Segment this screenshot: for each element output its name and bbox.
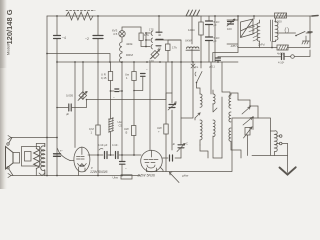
coil bank C3 <box>229 128 241 158</box>
switch S2 <box>197 62 203 94</box>
wire x181 trimmer C14 <box>180 62 182 158</box>
wire x172 trimmer C13 <box>171 62 173 150</box>
IF transformer / tuning gang <box>241 19 254 38</box>
wire left rail <box>46 16 48 176</box>
svg-text:DRM: DRM <box>126 53 133 57</box>
resistor R8 <box>121 175 132 179</box>
capacitor C6 <box>214 16 216 62</box>
wire x75 <box>74 62 76 148</box>
coil bank A1 <box>200 94 202 107</box>
gang arrows <box>249 27 255 36</box>
svg-text:~2: ~2 <box>85 37 89 41</box>
svg-text:FL: FL <box>195 65 199 69</box>
svg-text:420k: 420k <box>126 42 133 46</box>
paper background <box>0 0 320 189</box>
svg-text:120/148 G: 120/148 G <box>5 9 14 44</box>
coil bank C1 <box>229 93 238 108</box>
trimmer box <box>245 128 250 136</box>
svg-text:17S: 17S <box>149 28 154 32</box>
wire x222 <box>222 62 230 97</box>
svg-text:40: 40 <box>158 33 162 37</box>
transformer secondary <box>276 19 279 42</box>
wire right top <box>238 16 310 48</box>
choke hatched lower <box>186 47 200 50</box>
svg-text:4x500: 4x500 <box>274 20 282 24</box>
svg-text:0,005: 0,005 <box>66 94 73 98</box>
switch arrows C <box>242 107 250 114</box>
node top junctions <box>56 15 255 17</box>
wire x222 lower <box>221 97 223 158</box>
bottom bus <box>11 175 140 177</box>
resistor R2 <box>166 44 171 51</box>
svg-text:100: 100 <box>227 27 232 31</box>
capacitor C18 <box>162 157 181 159</box>
speaker <box>6 147 14 170</box>
wire mid rail x57 <box>56 61 58 176</box>
variable cap X box 2 <box>79 92 87 100</box>
svg-text:12kΩ: 12kΩ <box>188 28 195 32</box>
wire node bus y100 <box>87 93 173 100</box>
svg-text:s~: s~ <box>60 150 63 153</box>
trimmer cap C15 <box>54 154 61 157</box>
capacitor C2 trimmer <box>97 16 99 62</box>
trimmer C7 <box>227 16 238 20</box>
wire choke down <box>191 16 193 44</box>
resistor R4 hatched top <box>274 13 287 24</box>
capacitor C4 <box>208 16 210 62</box>
wire x110 <box>110 62 112 72</box>
ground arrow <box>287 144 289 173</box>
transformer primary <box>34 149 40 169</box>
output transformer box <box>22 147 40 167</box>
capacitor C12 <box>141 74 146 77</box>
trimmer bank row2 <box>146 38 181 43</box>
terminal input <box>11 137 57 139</box>
resistor R5 hatched lower <box>277 45 289 56</box>
capacitor C5 <box>206 37 213 41</box>
wire x134 <box>133 62 135 155</box>
wire x150 tube2 anode <box>149 62 151 150</box>
svg-text:4·5: 4·5 <box>113 32 118 36</box>
annotation arrow <box>170 172 180 183</box>
svg-text:µF: µF <box>172 142 175 146</box>
tube V1 <box>74 147 90 172</box>
resistor R1 <box>139 33 143 41</box>
wire y=53.5 <box>47 54 110 63</box>
svg-text:C: C <box>186 142 188 146</box>
wire lamp loop <box>122 27 141 33</box>
variable cap X box <box>151 51 159 59</box>
wire x98 lower <box>97 62 99 125</box>
capacitor C11 <box>121 155 123 176</box>
right coil L8 <box>271 131 278 156</box>
transformer secondary <box>41 144 45 176</box>
svg-text:Modell: Modell <box>7 44 11 55</box>
svg-text:~4: ~4 <box>62 36 66 40</box>
svg-text:17k: 17k <box>172 46 177 50</box>
svg-text:p: p <box>90 166 93 170</box>
antenna arrow end <box>312 15 318 18</box>
resistor R10 <box>132 126 136 136</box>
capacitor C8 + terminal <box>282 54 285 60</box>
resistor R11 <box>164 124 168 134</box>
svg-text:~: ~ <box>125 166 127 170</box>
svg-text:4·10⁵µF: 4·10⁵µF <box>98 143 108 147</box>
coil bank B2 <box>213 120 222 158</box>
capacitor C9 <box>57 100 87 108</box>
wire -185V <box>227 16 238 48</box>
svg-text:0,15: 0,15 <box>101 76 107 80</box>
wire y91 + capacitor C10 <box>111 90 123 92</box>
inductor L1 <box>66 12 93 20</box>
svg-text:12W 5N3/6: 12W 5N3/6 <box>90 170 108 174</box>
switch arrow A <box>195 113 200 118</box>
svg-text:µF: µF <box>66 112 69 116</box>
svg-text:UKW: UKW <box>185 39 192 43</box>
inductor L1 dashed core <box>66 10 95 12</box>
wire x193 <box>181 62 193 118</box>
coil bank C2 <box>229 112 231 122</box>
switch marks FL <box>191 64 195 68</box>
svg-text:2xPd: 2xPd <box>258 43 265 47</box>
svg-text:µ/kw: µ/kw <box>182 174 189 178</box>
resistor R7 <box>108 72 112 81</box>
svg-text:4·10⁵: 4·10⁵ <box>112 143 118 147</box>
coil bank A2 <box>200 120 202 145</box>
chassis ground <box>302 36 310 44</box>
lamp / dial light <box>119 31 125 37</box>
top bus wire <box>47 15 312 17</box>
capacitor C1 <box>56 16 58 61</box>
svg-text:µF: µF <box>174 100 177 104</box>
resistor R3 <box>199 22 203 35</box>
taps <box>276 135 279 137</box>
wire from top node x159 <box>146 16 159 47</box>
resistor R6 <box>96 125 100 135</box>
transformer core <box>271 20 273 41</box>
output transformer primary <box>257 20 260 48</box>
trimmer bank row3 <box>146 44 153 49</box>
svg-text:µ/0,1: µ/0,1 <box>209 65 215 69</box>
switch S1 <box>278 32 312 36</box>
wire x122 <box>121 62 123 155</box>
capacitor C16 <box>105 152 108 159</box>
tube V2 <box>141 150 163 172</box>
coil L2 below lamp <box>120 37 122 63</box>
coil bank B1 <box>213 90 215 104</box>
wire x211 <box>210 62 212 94</box>
capacitor C17 <box>116 152 119 159</box>
wire x160/x166 <box>165 62 167 172</box>
core gap mark <box>285 28 289 34</box>
caps row between tubes <box>88 154 141 156</box>
resistor R9 <box>132 72 136 81</box>
choke hatched top <box>186 10 200 16</box>
svg-text:4·10²: 4·10² <box>278 61 284 65</box>
svg-text:~: ~ <box>113 95 115 99</box>
wire x83 <box>82 62 84 100</box>
model label rotated <box>5 9 14 55</box>
trimmer bank row1 <box>146 31 153 36</box>
bus tube2 <box>147 118 271 172</box>
choke Dr <box>110 91 112 119</box>
bottom wires of coil bank <box>200 145 208 158</box>
main bus y=62 <box>57 61 238 63</box>
svg-text:-185 V: -185 V <box>230 44 238 48</box>
